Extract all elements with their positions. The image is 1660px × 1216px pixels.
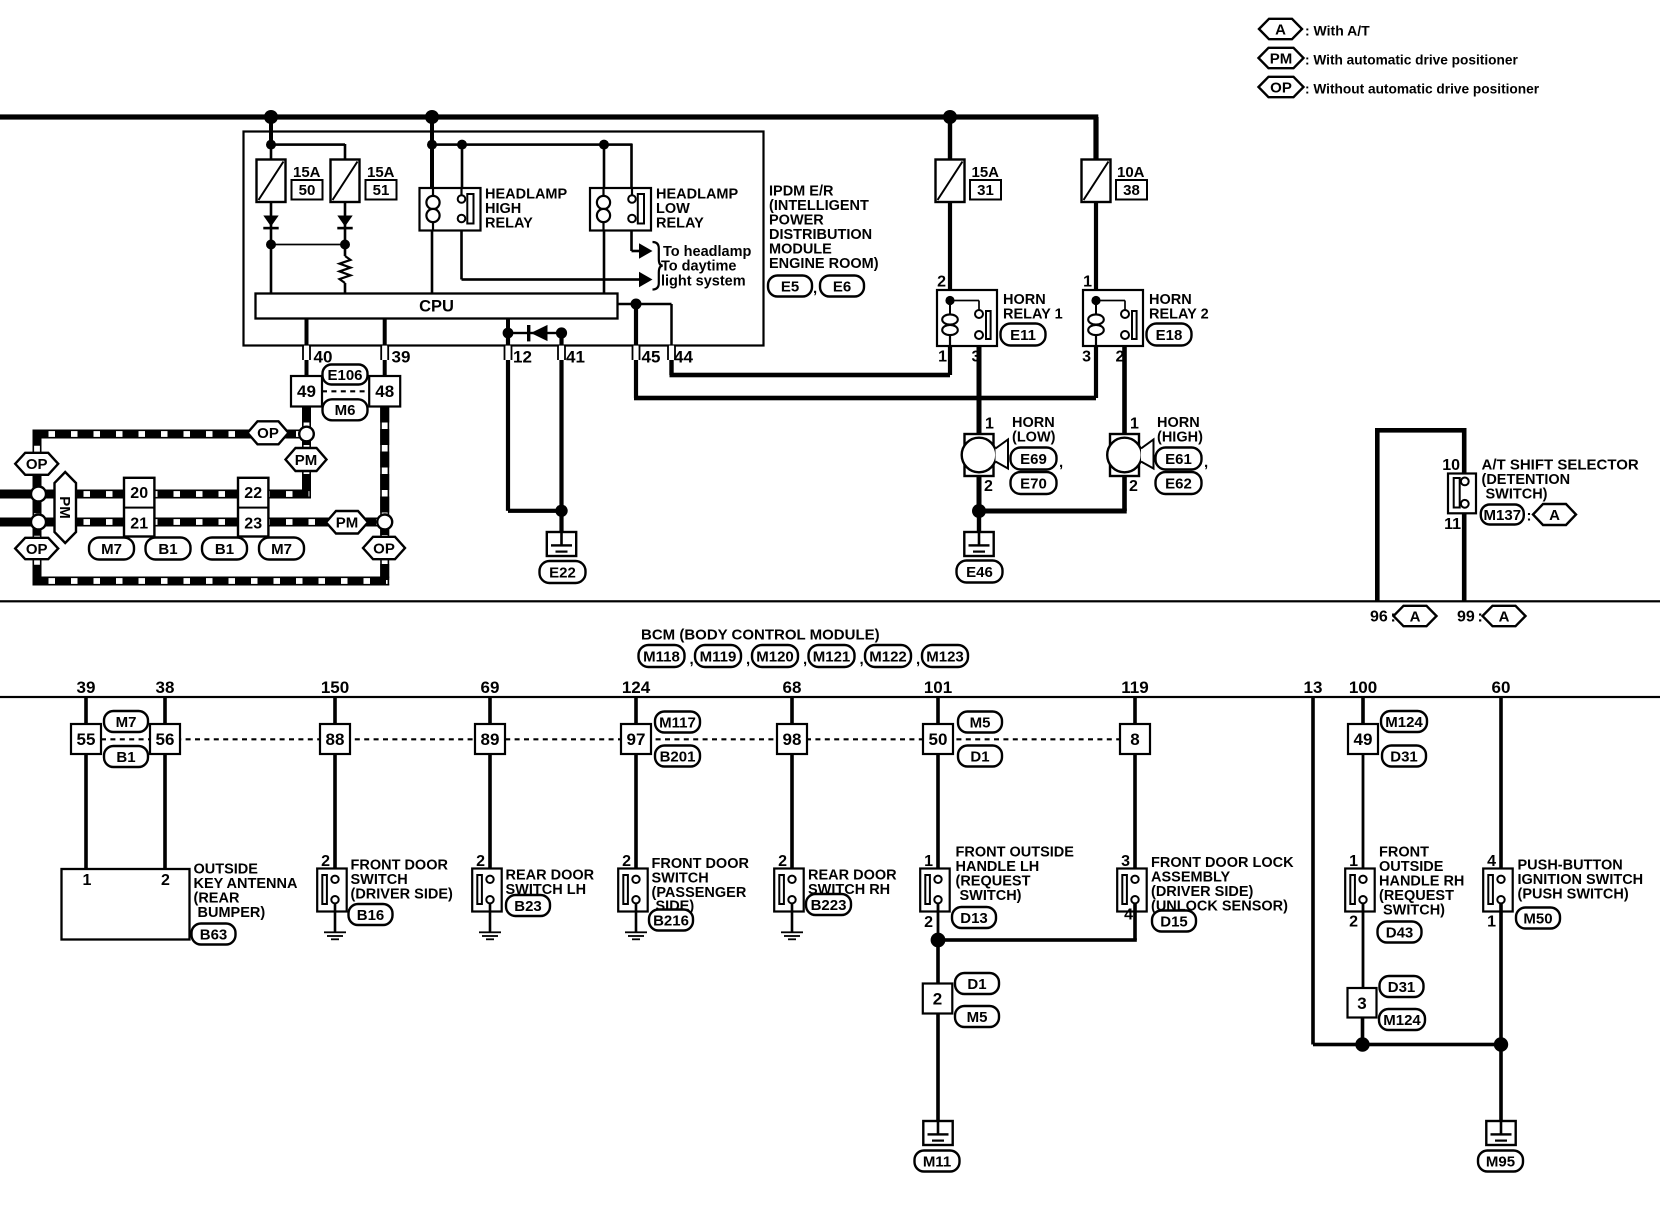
svg-text:39: 39 <box>392 348 411 367</box>
svg-text:97: 97 <box>627 730 646 749</box>
svg-text:B223: B223 <box>811 897 847 914</box>
svg-text:M7: M7 <box>271 541 292 558</box>
svg-text:2: 2 <box>933 990 942 1009</box>
svg-text:(LOW): (LOW) <box>1012 430 1056 446</box>
svg-text:22: 22 <box>244 485 262 502</box>
svg-text:(PUSH SWITCH): (PUSH SWITCH) <box>1518 887 1629 903</box>
svg-text:124: 124 <box>622 678 651 697</box>
svg-text:SIDE): SIDE) <box>656 899 695 915</box>
svg-text:51: 51 <box>373 182 390 199</box>
svg-text:B23: B23 <box>514 898 542 915</box>
svg-text:B1: B1 <box>158 541 177 558</box>
svg-text:A: A <box>1499 608 1510 625</box>
svg-text:23: 23 <box>244 516 262 533</box>
svg-text:2: 2 <box>1349 914 1358 931</box>
svg-text:,: , <box>813 280 817 297</box>
svg-text:69: 69 <box>481 678 500 697</box>
svg-text:E70: E70 <box>1020 475 1047 492</box>
svg-text:,: , <box>1059 454 1063 471</box>
svg-text:48: 48 <box>375 382 394 401</box>
svg-text:D31: D31 <box>1388 979 1416 996</box>
svg-text:15A: 15A <box>972 164 1000 181</box>
svg-text:E22: E22 <box>549 564 576 581</box>
svg-text:M117: M117 <box>659 714 696 731</box>
svg-text:1: 1 <box>1487 914 1496 931</box>
svg-text:39: 39 <box>77 678 96 697</box>
svg-text:M6: M6 <box>335 402 356 419</box>
svg-text:2: 2 <box>924 914 933 931</box>
svg-text:119: 119 <box>1121 678 1148 697</box>
svg-text:M123: M123 <box>926 648 964 665</box>
svg-text:OP: OP <box>257 425 279 442</box>
svg-text:15A: 15A <box>293 164 321 181</box>
svg-text:B1: B1 <box>215 541 234 558</box>
svg-text:B216: B216 <box>653 912 689 929</box>
svg-text:1: 1 <box>1130 416 1139 433</box>
svg-text:OP: OP <box>1270 79 1292 96</box>
svg-text:E61: E61 <box>1165 451 1192 468</box>
svg-text:SWITCH): SWITCH) <box>1383 903 1445 919</box>
svg-text:11: 11 <box>1444 516 1461 533</box>
svg-text:: Without automatic drive posi: : Without automatic drive positioner <box>1305 82 1540 97</box>
svg-text:98: 98 <box>783 730 802 749</box>
svg-text:55: 55 <box>77 730 96 749</box>
svg-text:1: 1 <box>1083 274 1092 291</box>
svg-text:2: 2 <box>937 274 946 291</box>
svg-text:10: 10 <box>1442 457 1460 474</box>
svg-text:E18: E18 <box>1156 327 1183 344</box>
svg-text:60: 60 <box>1492 678 1511 697</box>
svg-text:4: 4 <box>1487 853 1496 870</box>
svg-text:SWITCH): SWITCH) <box>1486 487 1548 503</box>
svg-text:,: , <box>1204 454 1208 471</box>
svg-text:(DRIVER SIDE): (DRIVER SIDE) <box>351 887 453 903</box>
svg-text:50: 50 <box>929 730 948 749</box>
svg-text:M121: M121 <box>813 648 851 665</box>
svg-text:88: 88 <box>326 730 345 749</box>
svg-text:31: 31 <box>977 182 994 199</box>
svg-text:M7: M7 <box>101 541 122 558</box>
svg-text::: : <box>1527 508 1532 525</box>
svg-text:13: 13 <box>1304 678 1323 697</box>
svg-text:D1: D1 <box>967 976 986 993</box>
svg-text:8: 8 <box>1130 730 1139 749</box>
svg-text:M5: M5 <box>970 714 991 731</box>
svg-text:: With A/T: : With A/T <box>1305 23 1370 39</box>
svg-text:RELAY 1: RELAY 1 <box>1003 307 1063 323</box>
svg-text:SWITCH RH: SWITCH RH <box>808 882 890 898</box>
svg-text:44: 44 <box>674 348 693 367</box>
svg-text:RELAY 2: RELAY 2 <box>1149 307 1209 323</box>
svg-text:12: 12 <box>513 348 532 367</box>
svg-text:10A: 10A <box>1117 164 1145 181</box>
svg-text:1: 1 <box>924 853 933 870</box>
svg-text:49: 49 <box>297 382 316 401</box>
svg-text:1: 1 <box>938 349 947 366</box>
svg-text:101: 101 <box>924 678 952 697</box>
svg-text:E69: E69 <box>1020 451 1047 468</box>
svg-text:E62: E62 <box>1165 475 1192 492</box>
svg-text:,: , <box>860 651 864 668</box>
svg-text:2: 2 <box>1116 349 1125 366</box>
svg-text:2: 2 <box>161 872 170 889</box>
svg-text:,: , <box>803 651 807 668</box>
svg-text:E46: E46 <box>966 564 993 581</box>
svg-text:M95: M95 <box>1486 1153 1515 1170</box>
svg-text:PM: PM <box>1270 50 1293 67</box>
svg-text:D15: D15 <box>1160 913 1188 930</box>
svg-text:99: 99 <box>1457 609 1475 626</box>
svg-text:1: 1 <box>83 872 92 889</box>
svg-text:PM: PM <box>56 496 73 519</box>
svg-text:68: 68 <box>783 678 802 697</box>
svg-text:PM: PM <box>336 515 359 532</box>
svg-text:OP: OP <box>373 540 395 557</box>
svg-text:B63: B63 <box>200 926 228 943</box>
svg-text:A: A <box>1410 608 1421 625</box>
svg-text:A/T SHIFT SELECTOR: A/T SHIFT SELECTOR <box>1482 457 1639 474</box>
svg-text:D13: D13 <box>960 910 988 927</box>
svg-text:49: 49 <box>1354 730 1373 749</box>
svg-text:M137: M137 <box>1484 507 1522 524</box>
svg-text:D43: D43 <box>1386 924 1414 941</box>
svg-text:OP: OP <box>26 541 48 558</box>
svg-text:SWITCH LH: SWITCH LH <box>506 882 587 898</box>
svg-text:3: 3 <box>1357 994 1366 1013</box>
svg-text:light system: light system <box>661 274 746 290</box>
svg-text:1: 1 <box>1349 853 1358 870</box>
svg-text:38: 38 <box>156 678 175 697</box>
svg-text:100: 100 <box>1349 678 1377 697</box>
svg-text:D1: D1 <box>970 748 989 765</box>
svg-text:2: 2 <box>321 853 330 870</box>
svg-text:: With automatic drive positio: : With automatic drive positioner <box>1305 53 1518 68</box>
svg-text:M119: M119 <box>700 648 737 665</box>
svg-text:3: 3 <box>1121 853 1130 870</box>
svg-text:1: 1 <box>985 416 994 433</box>
svg-text:E6: E6 <box>833 278 851 295</box>
svg-text:E106: E106 <box>327 367 362 384</box>
svg-text:2: 2 <box>1129 478 1138 495</box>
svg-text:ENGINE ROOM): ENGINE ROOM) <box>769 256 879 272</box>
svg-text:OP: OP <box>26 456 48 473</box>
svg-text:A: A <box>1275 21 1286 38</box>
svg-text:RELAY: RELAY <box>485 216 533 232</box>
svg-text:,: , <box>746 651 750 668</box>
svg-text:BUMPER): BUMPER) <box>198 905 266 921</box>
svg-text:PM: PM <box>295 452 318 469</box>
svg-text:M118: M118 <box>643 648 680 665</box>
svg-text:96: 96 <box>1370 609 1388 626</box>
svg-text:RELAY: RELAY <box>656 216 704 232</box>
svg-text:,: , <box>916 651 920 668</box>
svg-text:3: 3 <box>972 349 981 366</box>
svg-text:To daytime: To daytime <box>661 259 736 275</box>
svg-text:56: 56 <box>156 730 175 749</box>
svg-text:B1: B1 <box>116 749 135 766</box>
svg-text:BCM (BODY CONTROL MODULE): BCM (BODY CONTROL MODULE) <box>641 627 880 644</box>
svg-text:M122: M122 <box>869 648 907 665</box>
svg-text:A: A <box>1549 507 1560 524</box>
svg-text:M124: M124 <box>1383 1012 1421 1029</box>
svg-text:4: 4 <box>1124 907 1133 924</box>
svg-text:2: 2 <box>778 853 787 870</box>
svg-text:38: 38 <box>1123 182 1140 199</box>
svg-text:20: 20 <box>130 485 148 502</box>
svg-text:15A: 15A <box>367 164 395 181</box>
svg-text:21: 21 <box>130 516 148 533</box>
svg-text:3: 3 <box>1082 349 1091 366</box>
svg-text:(HIGH): (HIGH) <box>1157 430 1203 446</box>
svg-text:B201: B201 <box>660 748 696 765</box>
svg-text:50: 50 <box>299 182 316 199</box>
svg-text:M120: M120 <box>756 648 794 665</box>
svg-text:89: 89 <box>481 730 500 749</box>
svg-text:M5: M5 <box>967 1009 988 1026</box>
svg-text:2: 2 <box>622 853 631 870</box>
svg-text:E11: E11 <box>1010 327 1036 344</box>
svg-text:41: 41 <box>566 348 585 367</box>
svg-text:M124: M124 <box>1385 714 1423 731</box>
svg-text:E5: E5 <box>781 278 799 295</box>
svg-text:SWITCH): SWITCH) <box>960 888 1022 904</box>
svg-text:2: 2 <box>476 853 485 870</box>
svg-text:,: , <box>690 651 694 668</box>
svg-text:D31: D31 <box>1390 748 1418 765</box>
svg-text:150: 150 <box>321 678 349 697</box>
svg-text:M11: M11 <box>923 1153 951 1170</box>
svg-text:M50: M50 <box>1523 910 1552 927</box>
svg-text:B16: B16 <box>357 907 385 924</box>
svg-text:CPU: CPU <box>419 298 454 316</box>
svg-text:2: 2 <box>984 478 993 495</box>
svg-text:45: 45 <box>642 348 661 367</box>
svg-text:M7: M7 <box>116 714 137 731</box>
